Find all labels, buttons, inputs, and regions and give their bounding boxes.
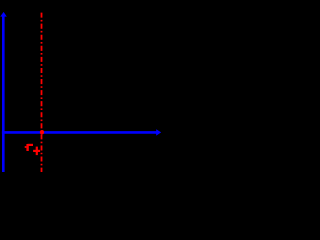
y-axis (blue vertical axis with arrowhead at top) xyxy=(0,12,7,172)
r = r+ dash-dot red vertical line xyxy=(41,13,43,172)
label r+ : glyph r xyxy=(25,144,33,151)
x-axis (blue horizontal axis with arrowhead at right) xyxy=(2,129,161,135)
point at r+ on x-axis xyxy=(40,130,44,134)
label r+ : subscript plus xyxy=(33,147,40,156)
